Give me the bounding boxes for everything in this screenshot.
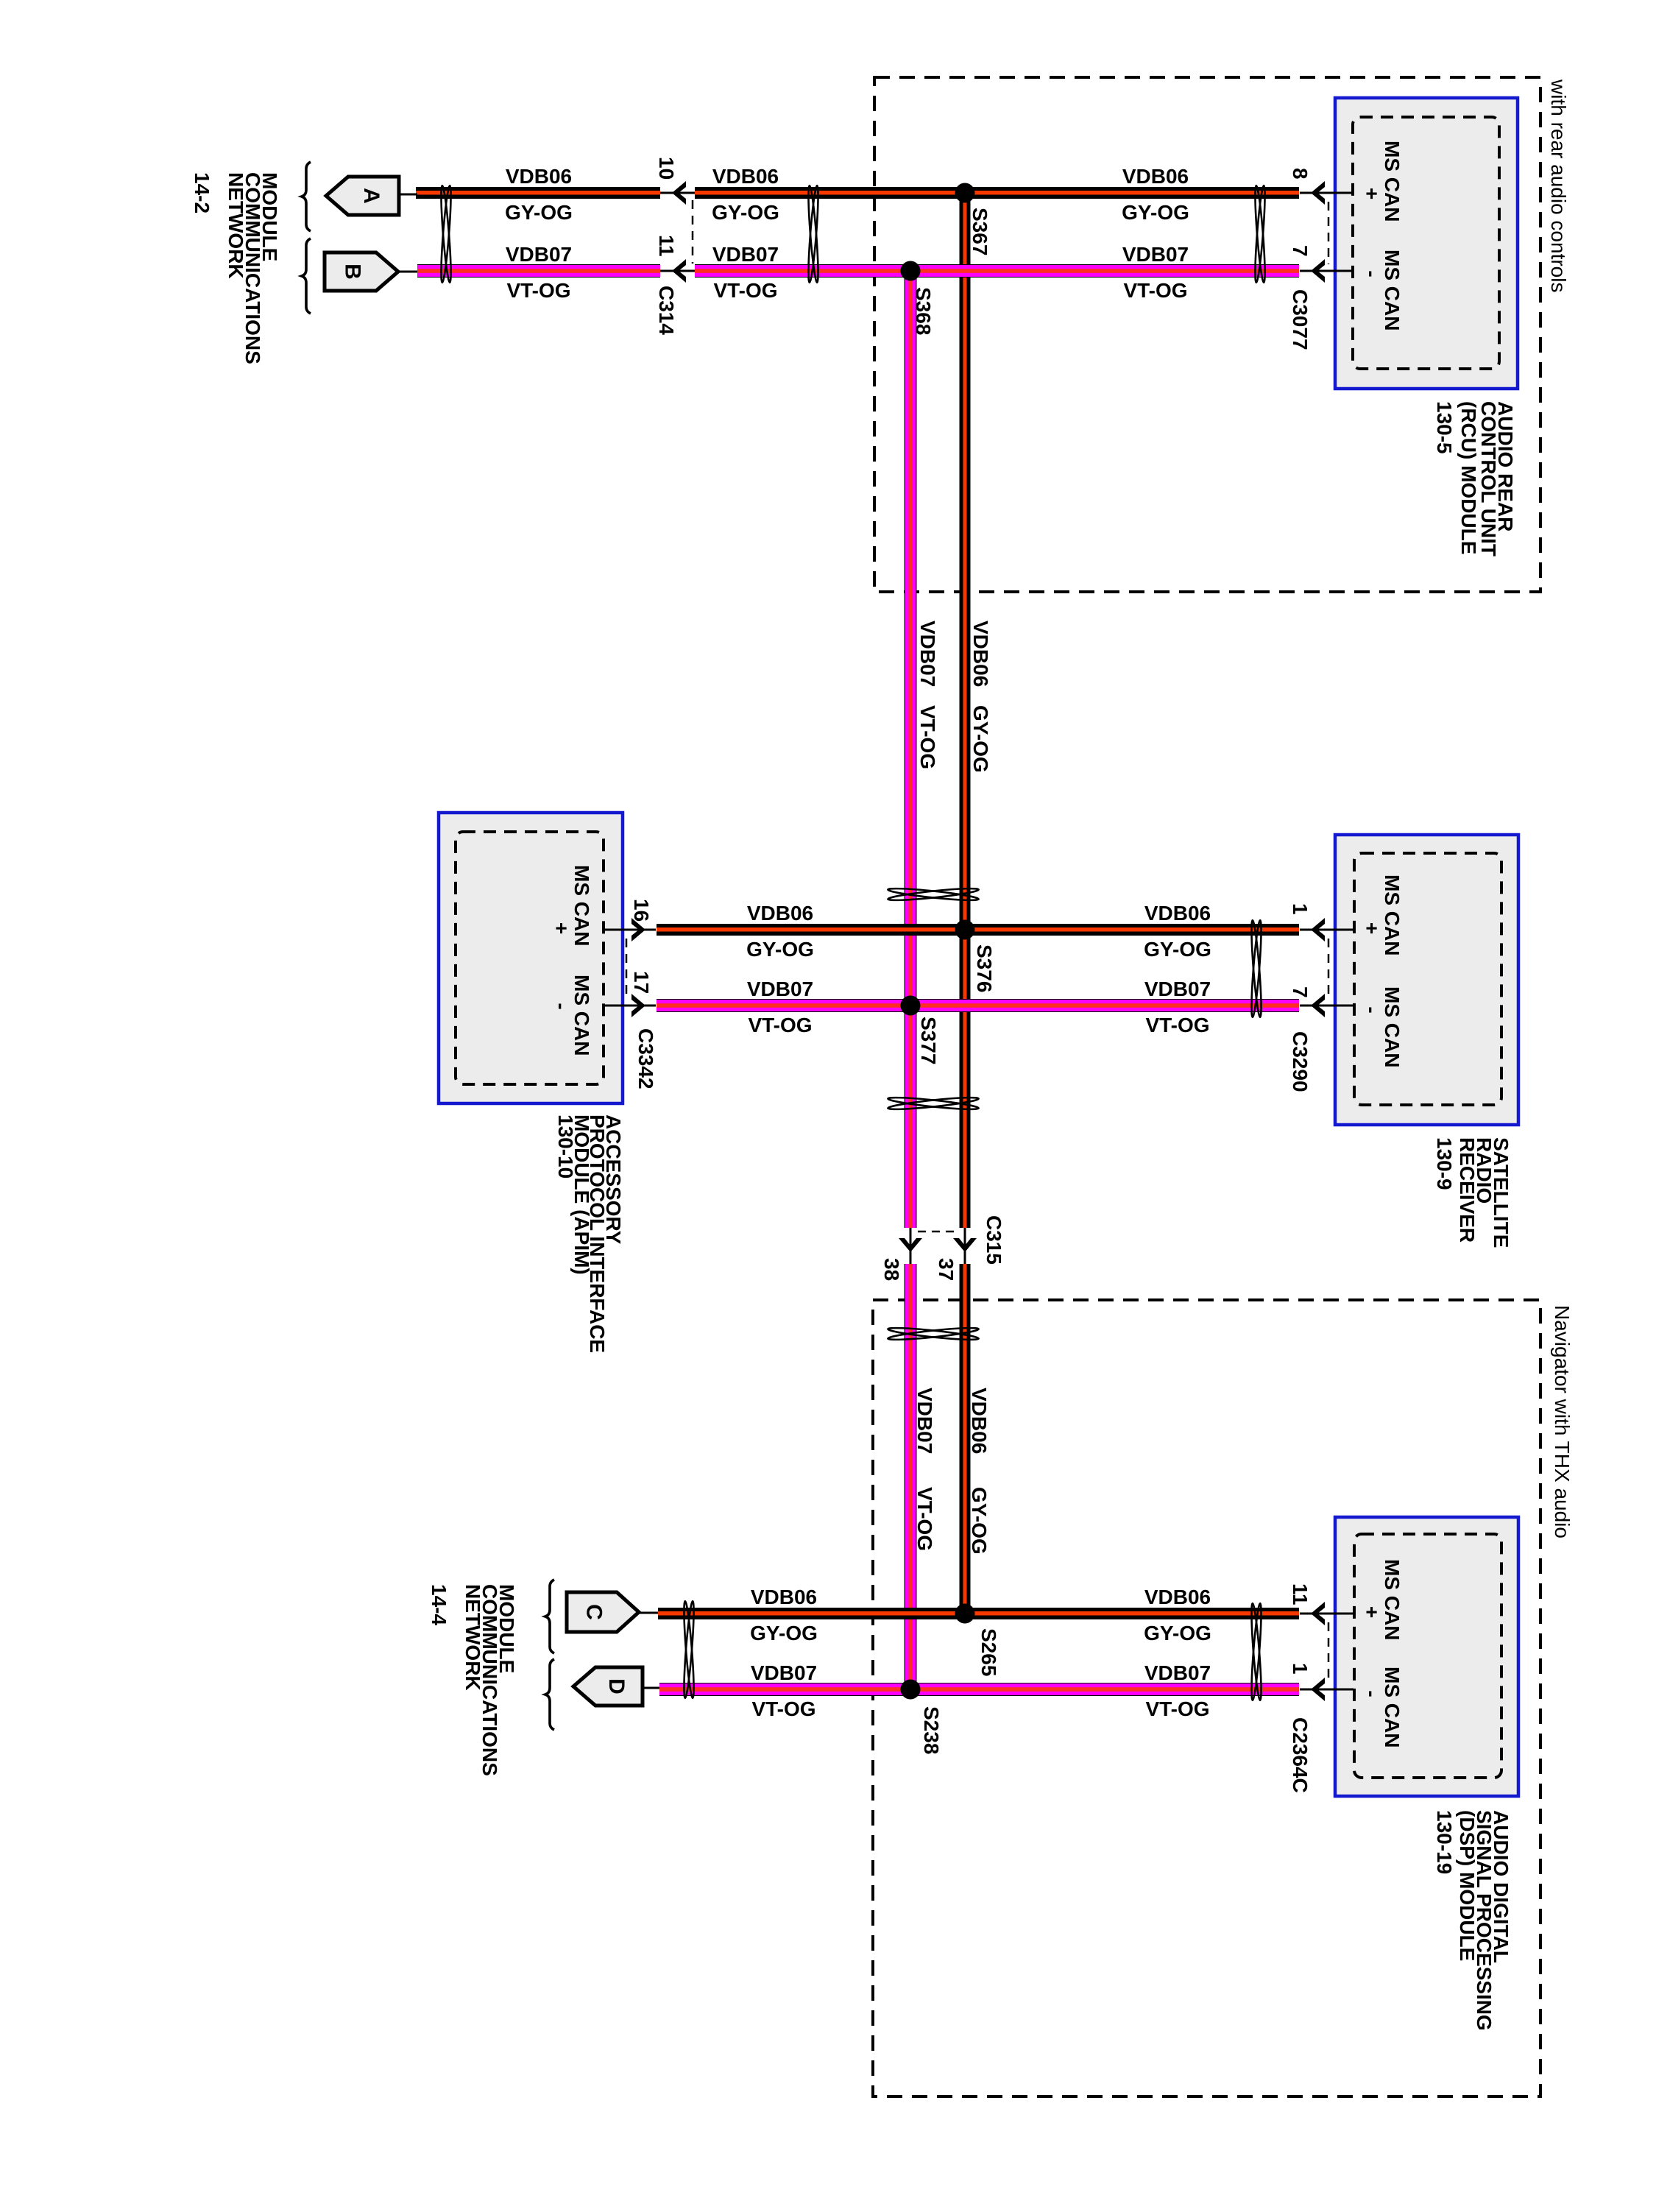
svg-text:D: D [604,1678,629,1695]
svg-text:VT-OG: VT-OG [916,705,939,769]
svg-text:VT-OG: VT-OG [506,279,570,302]
svg-text:VDB06: VDB06 [1144,1586,1211,1608]
svg-text:VDB06: VDB06 [747,902,813,925]
svg-text:VDB06: VDB06 [506,165,572,188]
splice S376 [955,920,975,940]
DSP pin 11 line [1300,1613,1354,1615]
twisted pair near C2364C [1250,1603,1263,1700]
svg-text:MS CAN: MS CAN [1381,1667,1404,1748]
twisted pair above S376 [888,886,979,902]
svg-text:C: C [582,1604,606,1620]
svg-text:37: 37 [935,1258,958,1281]
svg-text:VT-OG: VT-OG [748,1014,812,1036]
svg-text:-: - [551,1003,573,1009]
brace A [302,162,311,231]
svg-text:RECEIVER: RECEIVER [1456,1137,1479,1243]
splice S368 [901,261,921,281]
wire VDB07 VT-OG C314 to pin 7 [695,264,1299,278]
svg-text:GY-OG: GY-OG [1122,201,1189,224]
svg-text:VDB06: VDB06 [751,1586,817,1608]
svg-text:VDB06: VDB06 [969,621,992,687]
svg-text:7: 7 [1289,986,1312,998]
wire VDB07 VT-OG D to DSP pin 1 [659,1683,1299,1696]
dashed box: Navigator with THX audio [873,1300,1540,2096]
svg-text:VT-OG: VT-OG [1145,1014,1209,1036]
svg-text:1: 1 [1289,903,1312,915]
svg-text:+: + [1361,1606,1384,1618]
network arrow A [399,194,417,196]
svg-text:VDB07: VDB07 [506,243,572,266]
network arrow B [398,271,417,273]
wire VDB06 GY-OG C to DSP pin 11 [658,1608,1299,1619]
module DSP: AUDIO DIGITAL SIGNAL PROCESSING [1335,1517,1518,1796]
connector C315 [910,1228,965,1264]
svg-text:MS CAN: MS CAN [1381,1559,1404,1640]
twisted pair near A/B [439,185,453,283]
svg-text:MS CAN: MS CAN [570,975,593,1056]
svg-text:VDB06: VDB06 [712,165,779,188]
svg-text:NETWORK: NETWORK [461,1584,484,1691]
svg-text:VT-OG: VT-OG [713,279,777,302]
svg-text:A: A [359,188,383,204]
svg-text:-: - [1361,1006,1384,1013]
svg-text:S238: S238 [920,1706,943,1754]
svg-text:Navigator with THX audio: Navigator with THX audio [1551,1305,1574,1538]
splice S238 [901,1680,921,1700]
svg-text:B: B [341,264,365,280]
twisted pair after C314 [807,185,820,283]
module SAT: SATELLITE RADIO RECEIVER [1335,835,1518,1125]
svg-text:S368: S368 [912,287,935,335]
svg-text:VDB07: VDB07 [1122,243,1189,266]
twisted pair near C/D [682,1601,696,1698]
network arrow D [643,1687,659,1689]
RCU pin 7 line [1300,270,1354,272]
DSP pin 1 line [1300,1689,1354,1691]
dashed box: with rear audio controls [874,77,1540,592]
svg-text:GY-OG: GY-OG [505,201,573,224]
svg-text:+: + [1361,188,1384,199]
svg-text:GY-OG: GY-OG [750,1622,818,1644]
svg-text:C2364C: C2364C [1289,1717,1312,1793]
svg-text:C3290: C3290 [1289,1031,1312,1092]
svg-text:GY-OG: GY-OG [968,1487,991,1555]
wire VDB06 GY-OG A to C314 [416,187,660,199]
svg-text:+: + [1361,922,1384,934]
svg-text:MS CAN: MS CAN [1381,250,1404,331]
wire VDB07 VT-OG B to C314 [417,264,660,278]
svg-text:8: 8 [1289,168,1312,180]
splice S377 [901,996,921,1016]
svg-text:VDB06: VDB06 [1122,165,1189,188]
svg-text:10: 10 [655,157,678,180]
svg-text:130-19: 130-19 [1433,1810,1456,1874]
wire VDB06 GY-OG vertical S367 to C315 [960,193,971,1228]
twisted pair near C3077 [1253,185,1267,283]
svg-text:GY-OG: GY-OG [969,705,992,773]
svg-text:with rear audio controls: with rear audio controls [1547,79,1570,292]
svg-text:GY-OG: GY-OG [1144,938,1211,961]
svg-text:VDB06: VDB06 [1144,902,1211,925]
svg-text:130-10: 130-10 [554,1114,577,1179]
svg-text:NETWORK: NETWORK [224,172,247,279]
wire VDB07 VT-OG vertical C315 to S238 [905,1264,917,1689]
svg-text:(RCU) MODULE: (RCU) MODULE [1457,401,1480,554]
twisted pair near C3290 [1250,920,1263,1017]
svg-text:S377: S377 [917,1017,940,1064]
svg-text:VT-OG: VT-OG [1145,1697,1209,1720]
brace C [545,1580,554,1653]
svg-text:1: 1 [1289,1663,1312,1675]
svg-text:11: 11 [1289,1583,1312,1605]
wire VDB06 GY-OG vertical C315 to S265 [960,1264,971,1614]
brace D [545,1659,554,1730]
module RCU: AUDIO REAR CONTROL UNIT [1335,98,1518,389]
svg-text:-: - [1361,270,1384,277]
connector C314 [660,193,695,271]
svg-text:S265: S265 [977,1628,1000,1676]
svg-text:VDB07: VDB07 [1144,1661,1211,1684]
wire VDB07 VT-OG APIM pin 17 to SAT pin 7 [657,999,1299,1012]
svg-text:+: + [551,922,573,934]
svg-text:-: - [1361,1690,1384,1697]
twisted pair below S377 [888,1095,979,1112]
wire VDB06 GY-OG APIM pin 16 to SAT pin 1 [657,924,1299,936]
APIM pin 17 line [604,1005,656,1007]
twisted pair below C315 [888,1326,979,1342]
svg-text:S367: S367 [969,208,991,255]
svg-text:S376: S376 [973,944,996,992]
svg-text:MS CAN: MS CAN [570,865,593,946]
svg-text:MS CAN: MS CAN [1381,141,1404,222]
svg-text:17: 17 [630,971,653,994]
SAT pin 7 line [1300,1005,1354,1007]
svg-text:GY-OG: GY-OG [746,938,814,961]
SAT pin 1 line [1300,929,1354,931]
svg-text:VDB07: VDB07 [747,978,813,1000]
svg-text:VT-OG: VT-OG [751,1697,815,1720]
svg-text:C314: C314 [655,286,678,335]
svg-text:14-2: 14-2 [191,172,213,213]
svg-text:14-4: 14-4 [428,1584,450,1625]
splice S367 [955,183,975,203]
splice S265 [955,1604,975,1624]
svg-text:38: 38 [880,1258,903,1281]
wire VDB06 GY-OG C314 to pin 8 [695,187,1299,199]
network arrow C [639,1612,658,1614]
brace B [302,238,311,314]
svg-text:VT-OG: VT-OG [913,1487,936,1551]
svg-text:130-5: 130-5 [1433,401,1456,454]
svg-text:VDB07: VDB07 [1144,978,1211,1000]
svg-text:VDB07: VDB07 [913,1388,936,1454]
svg-text:VDB07: VDB07 [916,621,939,687]
svg-text:7: 7 [1289,245,1312,257]
svg-text:MS CAN: MS CAN [1381,874,1404,955]
wire VDB07 VT-OG vertical S368 to C315 [905,271,917,1228]
svg-text:C315: C315 [983,1215,1005,1265]
svg-text:GY-OG: GY-OG [712,201,779,224]
module APIM: ACCESSORY PROTOCOL INTERFACE MODULE [439,813,623,1103]
svg-text:GY-OG: GY-OG [1144,1622,1211,1644]
svg-text:C3077: C3077 [1289,289,1312,350]
svg-text:VDB07: VDB07 [751,1661,817,1684]
svg-text:VDB06: VDB06 [968,1388,991,1454]
svg-text:MS CAN: MS CAN [1381,986,1404,1067]
svg-text:VDB07: VDB07 [712,243,779,266]
RCU pin 8 line [1300,192,1354,194]
svg-text:130-9: 130-9 [1433,1137,1456,1190]
svg-text:VT-OG: VT-OG [1123,279,1187,302]
APIM pin 16 line [604,929,656,931]
svg-text:C3342: C3342 [634,1028,657,1089]
svg-text:16: 16 [630,899,653,922]
svg-text:11: 11 [655,235,678,257]
svg-text:(DSP) MODULE: (DSP) MODULE [1456,1810,1479,1961]
